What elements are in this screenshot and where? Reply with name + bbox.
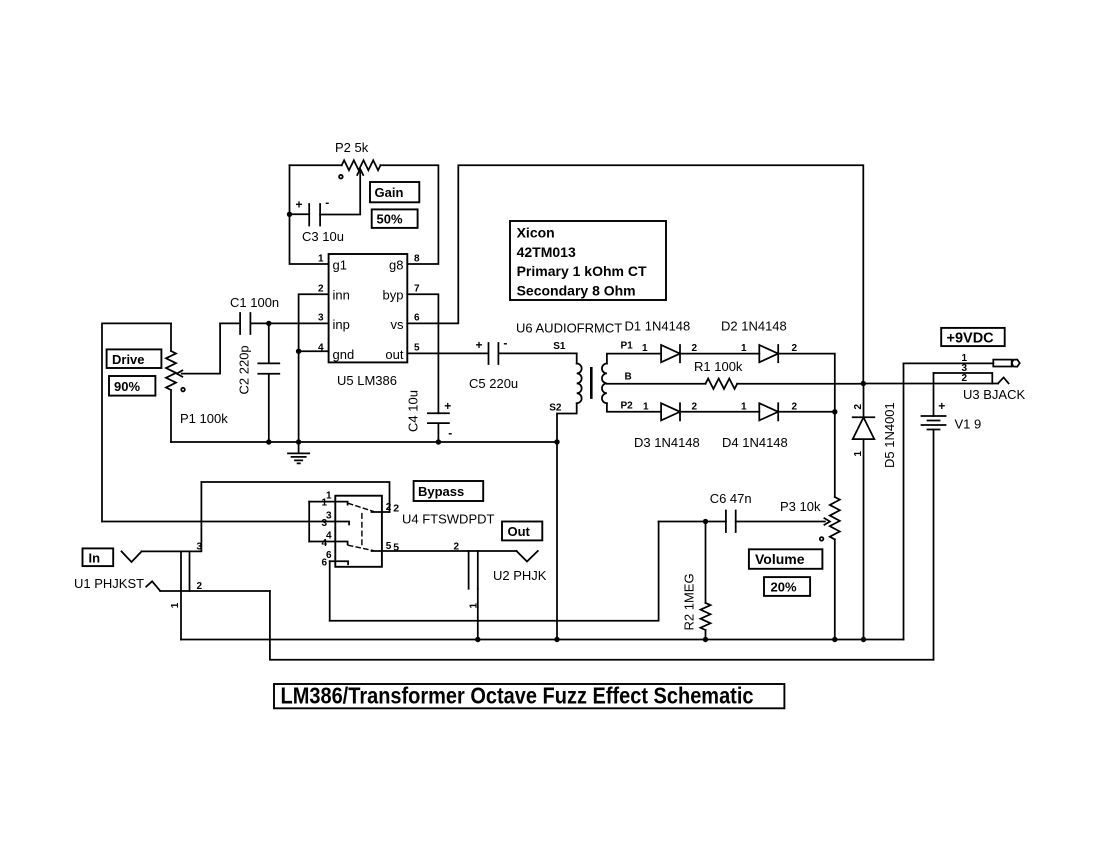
svg-text:inp: inp [333, 317, 350, 332]
svg-text:+: + [444, 399, 451, 413]
svg-text:C4 10u: C4 10u [406, 390, 421, 432]
svg-text:B: B [625, 372, 632, 383]
svg-text:90%: 90% [114, 379, 140, 394]
svg-text:6: 6 [414, 313, 420, 324]
svg-text:-: - [503, 336, 507, 350]
svg-text:Gain: Gain [375, 185, 404, 200]
svg-text:2: 2 [197, 581, 203, 592]
svg-text:U4 FTSWDPDT: U4 FTSWDPDT [402, 512, 495, 527]
svg-text:P1 100k: P1 100k [180, 411, 228, 426]
svg-text:2: 2 [853, 404, 864, 410]
svg-text:C5 220u: C5 220u [469, 376, 518, 391]
svg-text:In: In [89, 551, 101, 566]
svg-text:+9VDC: +9VDC [947, 330, 995, 346]
svg-text:5: 5 [393, 542, 399, 554]
svg-text:R2 1MEG: R2 1MEG [682, 573, 697, 630]
svg-text:D5 1N4001: D5 1N4001 [882, 402, 897, 468]
svg-text:byp: byp [383, 288, 404, 303]
svg-text:D3 1N4148: D3 1N4148 [634, 435, 700, 450]
svg-text:Drive: Drive [112, 352, 145, 367]
svg-text:D1 1N4148: D1 1N4148 [625, 319, 691, 334]
svg-text:1: 1 [469, 603, 480, 609]
svg-text:Xicon: Xicon [517, 225, 555, 241]
svg-text:1: 1 [318, 253, 324, 264]
svg-text:6: 6 [321, 558, 327, 569]
svg-text:C1 100n: C1 100n [230, 295, 279, 310]
svg-text:D4 1N4148: D4 1N4148 [722, 435, 788, 450]
svg-text:20%: 20% [771, 580, 797, 595]
svg-text:g1: g1 [333, 258, 347, 273]
svg-text:1: 1 [853, 451, 864, 457]
svg-text:LM386/Transformer Octave Fuzz: LM386/Transformer Octave Fuzz Effect Sch… [281, 683, 754, 709]
svg-text:2: 2 [386, 502, 392, 513]
svg-text:4: 4 [318, 343, 324, 354]
svg-text:gnd: gnd [333, 347, 355, 362]
svg-text:2: 2 [792, 401, 798, 412]
svg-text:1: 1 [741, 401, 747, 412]
svg-text:2: 2 [393, 503, 399, 515]
svg-text:S1: S1 [553, 341, 566, 352]
svg-text:50%: 50% [377, 212, 403, 227]
svg-text:C2 220p: C2 220p [237, 345, 252, 394]
svg-text:+: + [938, 399, 945, 413]
svg-text:1: 1 [642, 343, 648, 354]
svg-text:1: 1 [741, 343, 747, 354]
svg-text:U3 BJACK: U3 BJACK [963, 387, 1025, 402]
svg-text:U2 PHJK: U2 PHJK [493, 568, 547, 583]
svg-text:inn: inn [333, 288, 350, 303]
svg-text:Primary 1 kOhm CT: Primary 1 kOhm CT [517, 263, 647, 279]
svg-text:Volume: Volume [755, 551, 805, 567]
svg-text:1: 1 [321, 498, 327, 509]
svg-text:Secondary 8 Ohm: Secondary 8 Ohm [517, 282, 636, 298]
svg-text:P1: P1 [621, 341, 634, 352]
svg-text:vs: vs [391, 317, 405, 332]
svg-text:3: 3 [197, 541, 203, 552]
svg-text:V1 9: V1 9 [955, 417, 982, 432]
svg-text:3: 3 [318, 313, 324, 324]
svg-text:U6 AUDIOFRMCT: U6 AUDIOFRMCT [516, 321, 622, 336]
svg-text:C6 47n: C6 47n [710, 491, 752, 506]
svg-text:2: 2 [692, 343, 698, 354]
svg-text:-: - [448, 426, 452, 440]
svg-text:S2: S2 [549, 403, 562, 414]
svg-text:P3 10k: P3 10k [780, 499, 821, 514]
svg-text:C3 10u: C3 10u [302, 229, 344, 244]
svg-text:P2 5k: P2 5k [335, 140, 369, 155]
svg-text:R1 100k: R1 100k [694, 359, 743, 374]
svg-text:7: 7 [414, 284, 420, 295]
svg-text:4: 4 [321, 538, 327, 549]
svg-text:1: 1 [170, 602, 181, 608]
svg-text:D2 1N4148: D2 1N4148 [721, 319, 787, 334]
svg-text:2: 2 [792, 343, 798, 354]
svg-text:3: 3 [321, 518, 327, 529]
svg-text:5: 5 [414, 343, 420, 354]
svg-text:5: 5 [386, 541, 392, 552]
svg-text:+: + [475, 338, 482, 352]
svg-text:2: 2 [454, 542, 460, 553]
svg-text:Bypass: Bypass [418, 484, 464, 499]
svg-text:8: 8 [414, 253, 420, 264]
svg-text:U1 PHJKST: U1 PHJKST [74, 576, 144, 591]
svg-text:U5 LM386: U5 LM386 [337, 373, 397, 388]
svg-text:2: 2 [318, 284, 324, 295]
svg-text:42TM013: 42TM013 [517, 244, 576, 260]
svg-text:-: - [325, 196, 329, 210]
svg-text:2: 2 [692, 401, 698, 412]
svg-text:+: + [295, 198, 302, 212]
svg-text:Out: Out [508, 524, 531, 539]
svg-text:P2: P2 [621, 401, 634, 412]
svg-text:1: 1 [643, 401, 649, 412]
svg-text:g8: g8 [389, 258, 403, 273]
svg-text:out: out [385, 347, 403, 362]
svg-text:2: 2 [962, 373, 968, 384]
